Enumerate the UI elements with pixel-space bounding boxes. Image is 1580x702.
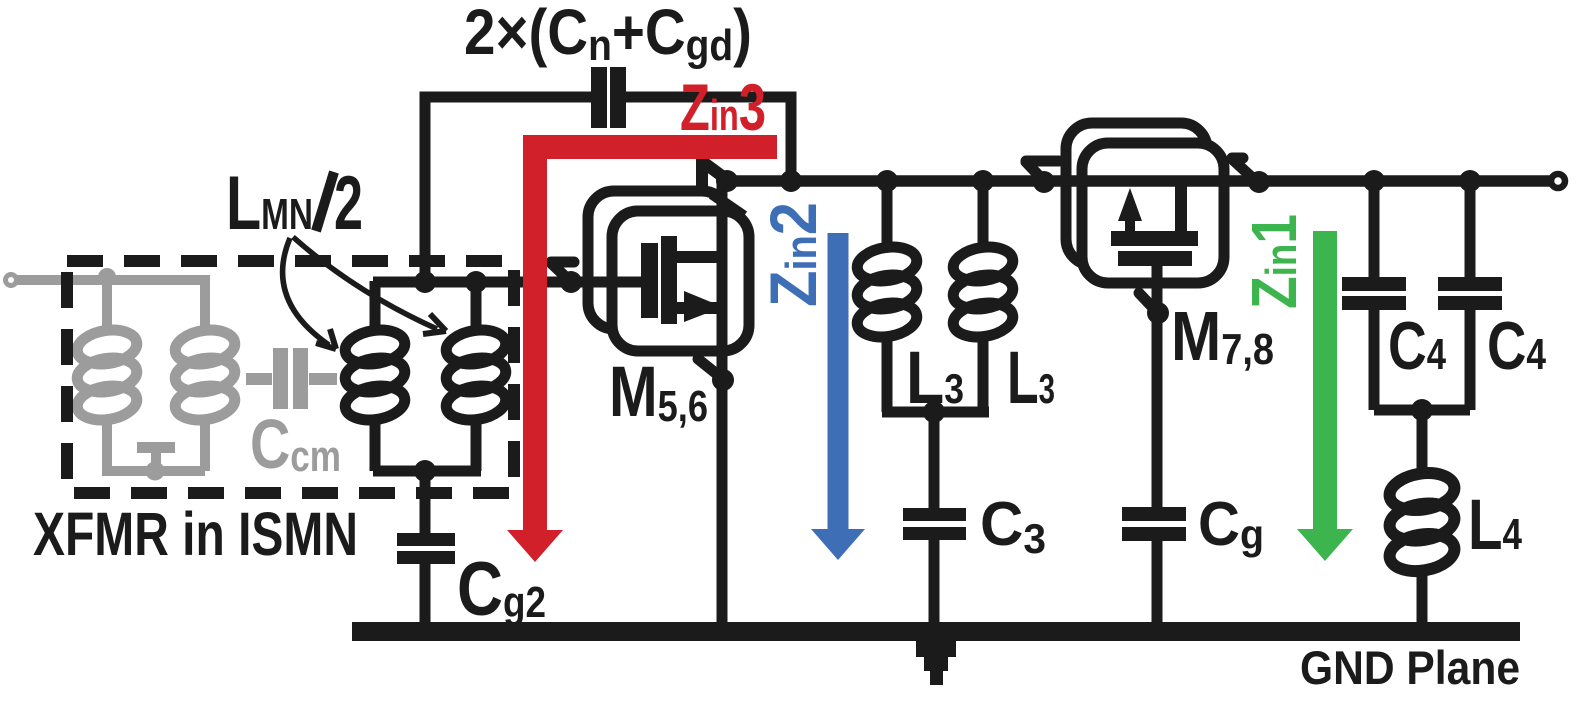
transistor M5,6 back box	[588, 191, 728, 329]
node L3 bottom join	[923, 401, 945, 423]
node rail L3 left	[876, 170, 898, 192]
node LMN bottom center	[414, 460, 436, 482]
M7,8 drain arrow stem	[1125, 219, 1135, 232]
node rail M7,8 left	[1033, 171, 1055, 193]
Zin1 green arrow	[1313, 231, 1337, 530]
M5,6 drain top motif	[696, 157, 708, 190]
node C4 bottom join	[1411, 399, 1433, 421]
capacitor C4 left plates	[1342, 277, 1406, 291]
wire gray primary left leg	[102, 280, 112, 333]
M5,6 source lead	[677, 302, 722, 314]
M5,6 source arrow	[684, 291, 723, 322]
thin arrow to LMN left coil	[283, 238, 329, 345]
transistor M7,8 back box	[1066, 123, 1207, 265]
node rail drain M5,6	[716, 170, 738, 192]
output terminal right	[1551, 174, 1565, 188]
node gray bottom tap	[146, 462, 165, 481]
svg-text:2: 2	[334, 161, 363, 246]
node M5,6 gate	[560, 271, 582, 293]
capacitor Cg plates	[1122, 507, 1186, 521]
M5,6 drain lead	[677, 251, 722, 263]
node LMN right coil top	[465, 271, 487, 293]
dashed boundary box	[67, 261, 514, 493]
node gate/cap tap	[414, 271, 436, 293]
wire C3 top stem	[929, 412, 940, 508]
node M7,8 gate	[1147, 302, 1169, 324]
wire L3 right legs	[978, 181, 989, 250]
M7,8 gate bar	[1118, 251, 1192, 266]
M7,8 left motif	[1026, 161, 1059, 182]
wire gray bottom	[102, 466, 205, 476]
inductor LMN/2 right	[444, 326, 508, 424]
wire top cap left branch	[425, 97, 591, 281]
wire LMN/2 right coil legs	[471, 281, 482, 333]
capacitor C4 right plates	[1438, 277, 1502, 291]
wire LMN/2 left coil legs	[370, 281, 381, 333]
capacitor Cg2 plates	[397, 533, 455, 546]
M5,6 gate bar	[641, 243, 658, 318]
M7,8 right motif	[1232, 158, 1257, 182]
capacitor C3 plates	[903, 508, 966, 521]
wire C4 bottom join	[1374, 405, 1470, 416]
capacitor 2x(Cn+Cgd) plates	[591, 67, 607, 128]
wire C3 bottom stem	[929, 540, 940, 622]
inductor L4	[1387, 469, 1457, 576]
Zin3 red path	[535, 147, 777, 530]
node rail C4 left	[1363, 170, 1385, 192]
M7,8 rail through box	[1066, 176, 1236, 186]
node rail M7,8 right	[1248, 171, 1270, 193]
node M5,6 source	[712, 369, 734, 391]
wire gray coil bottom legs	[102, 418, 112, 471]
node rail top cap	[780, 170, 802, 192]
wire L3 bottom join	[882, 407, 989, 418]
M5,6 source motif	[698, 359, 723, 379]
wire Cg2 top stem	[420, 471, 431, 533]
Zin2 blue arrow	[828, 233, 849, 530]
inductor L3 left	[855, 243, 919, 341]
node rail C4 right	[1459, 170, 1481, 192]
wire M5,6 drain-source vertical	[717, 181, 728, 622]
port terminal (gray input)	[6, 275, 17, 286]
svg-text:GND Plane: GND Plane	[1300, 641, 1520, 694]
M7,8 channel bar	[1111, 231, 1198, 246]
M7,8 gate motif	[1139, 293, 1157, 312]
wire M7,8 gate down to Cg	[1152, 266, 1163, 507]
transistor M7,8 front box	[1082, 143, 1224, 283]
wire C4 right branch	[1465, 181, 1476, 277]
wire gray input	[17, 280, 205, 333]
GND plane bar	[352, 622, 1520, 641]
center tap bar	[137, 442, 175, 453]
wire Cg2 bottom stem	[420, 564, 431, 622]
wire C4 left branch	[1369, 181, 1380, 277]
node junction dots	[414, 170, 1481, 482]
inductor gray primary left	[75, 326, 139, 424]
inductor gray primary right	[173, 326, 237, 424]
M5,6 gate motif	[551, 262, 574, 282]
M5,6 channel bar	[661, 236, 677, 324]
wire L4 top stem	[1417, 410, 1428, 476]
node gray top	[98, 268, 116, 286]
svg-text:XFMR in ISMN: XFMR in ISMN	[33, 500, 358, 568]
capacitor Ccm leads	[246, 373, 337, 385]
wire main top rail	[727, 175, 1550, 187]
M7,8 source lead	[1175, 181, 1187, 231]
ground symbol	[916, 641, 956, 657]
capacitor Ccm plates	[273, 348, 288, 409]
M7,8 drain arrow head	[1118, 188, 1142, 221]
wire top cap right branch	[626, 97, 791, 181]
center tap stem	[151, 452, 161, 471]
wire L4 bottom stem	[1417, 568, 1428, 622]
wire Cg bottom stem	[1152, 541, 1163, 622]
wire L3 left legs	[882, 181, 893, 250]
thin arrow to LMN right coil	[293, 237, 437, 329]
node rail L3 right	[972, 170, 994, 192]
transistor M5,6 front box	[612, 211, 749, 351]
wire gate rail of M5,6	[373, 277, 646, 288]
wire LMN/2 bottom	[373, 466, 481, 477]
inductor L3 right	[951, 243, 1015, 341]
inductor LMN/2 left	[343, 326, 407, 424]
